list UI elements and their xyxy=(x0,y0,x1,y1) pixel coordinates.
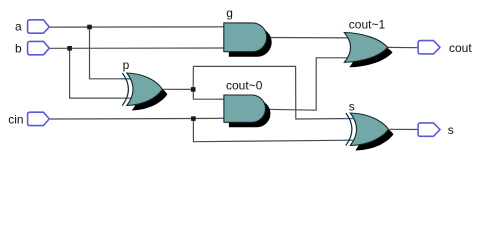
shadow of AND g xyxy=(229,28,272,57)
wire stub blue into cout~0 bottom xyxy=(217,117,225,119)
shadow of XOR s xyxy=(355,118,393,151)
svg-text:s: s xyxy=(349,100,355,114)
input pin cin xyxy=(28,112,50,125)
svg-text:b: b xyxy=(15,42,22,56)
wire p branch up and over to XOR s top input xyxy=(193,66,354,119)
wire a branch down to XOR p top input xyxy=(90,27,132,79)
wire stub blue into p bottom xyxy=(120,97,132,99)
XOR gate s xyxy=(350,113,388,146)
shadow of OR cout~1 xyxy=(349,38,392,68)
svg-text:cin: cin xyxy=(8,112,23,126)
input pin b xyxy=(28,41,50,54)
svg-text:cout: cout xyxy=(449,41,472,55)
wire p output to junction xyxy=(162,88,193,90)
XOR gate p xyxy=(127,73,163,106)
XOR s leading arc xyxy=(346,113,352,146)
wire stub blue into s bottom xyxy=(344,139,355,141)
wire stub blue into g top xyxy=(217,26,225,28)
wire s output to pin s xyxy=(390,128,419,130)
node b junction xyxy=(67,46,72,51)
wire cout~0 output up to OR cout~1 bottom input xyxy=(267,58,353,110)
AND gate cout~0 xyxy=(224,95,266,122)
output pin cout xyxy=(418,41,440,54)
wire stub blue into cout~0 top xyxy=(217,98,225,100)
wire cout~1 output to pin cout xyxy=(388,46,419,48)
output pin s xyxy=(418,123,440,136)
wire b branch down to XOR p bottom input xyxy=(70,48,131,98)
wire stub blue into p top xyxy=(120,78,132,80)
wire cin branch down to XOR s bottom input xyxy=(193,119,354,142)
wire stub blue into s top xyxy=(344,118,355,120)
shadow of XOR p xyxy=(132,78,168,111)
node p junction xyxy=(191,87,196,92)
XOR p leading arc xyxy=(122,73,128,106)
wire a: pin a to AND g top input xyxy=(50,26,224,28)
AND gate g xyxy=(224,23,267,52)
wire stub blue into cout~1 bottom xyxy=(346,57,353,59)
wire cin: pin cin to AND cout~0 bottom input xyxy=(50,117,224,120)
svg-text:a: a xyxy=(15,19,22,33)
OR gate cout~1 xyxy=(344,33,387,63)
input pin a xyxy=(28,20,50,33)
svg-text:p: p xyxy=(123,58,130,72)
svg-text:cout~0: cout~0 xyxy=(226,78,263,92)
svg-text:cout~1: cout~1 xyxy=(349,18,386,32)
wire p branch down to AND cout~0 top input xyxy=(193,89,224,99)
node cin junction xyxy=(191,116,196,121)
node a junction xyxy=(87,25,92,30)
wire stub blue into cout~1 top xyxy=(345,37,353,39)
svg-text:g: g xyxy=(226,6,233,20)
svg-text:s: s xyxy=(448,123,454,137)
shadow of AND cout~0 xyxy=(229,100,271,127)
wire b: pin b to AND g bottom input xyxy=(50,47,224,49)
wire stub blue into g bottom xyxy=(217,47,225,49)
wire g output to OR cout~1 top input xyxy=(267,37,352,39)
